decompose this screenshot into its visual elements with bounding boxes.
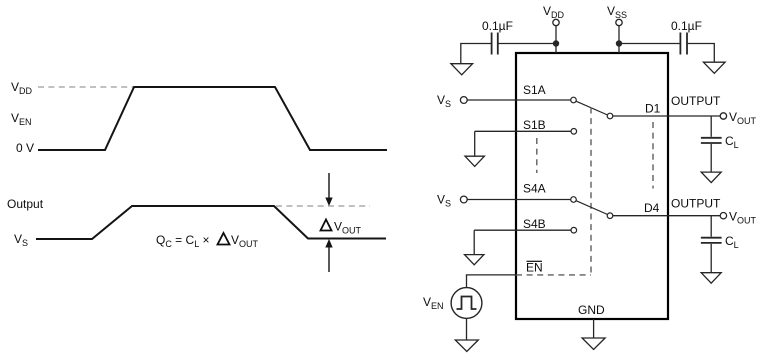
S4B open contact [571,227,577,233]
junction VDD node [553,40,559,46]
svg-text:GND: GND [578,303,605,317]
switch S1 arm [576,101,608,115]
switch S1 pole contact [571,97,577,103]
capacitor 0.1uF right [671,19,702,55]
switch S4 pole contact [571,197,577,203]
down arrow to dashed line [325,173,332,206]
capacitor CL (bottom) [701,234,739,250]
VS source terminal (top) [437,93,467,109]
switch S4 arm [576,201,608,215]
VSS terminal [607,4,627,26]
VDD terminal [543,4,565,26]
ground (S1B) [465,156,484,166]
svg-text:QC = CL ×: QC = CL × [156,233,210,249]
wire S4B to ground [473,230,475,254]
IC body outline [516,53,668,319]
wire VOUT node to CL (top) [710,116,712,137]
ground (right bypass cap) [703,62,725,73]
VOUT terminal (bottom) [720,210,756,226]
equation QC = CL x dVOUT [156,233,259,249]
wire VSS node to right capacitor [619,43,680,45]
wire VDD node to left capacitor [498,43,556,45]
label VS (waveform) [14,232,28,248]
wire VS to S4A pole [467,199,571,201]
label VDD (waveform level) [11,80,33,96]
wire VEN source to ground [466,318,468,340]
ground (left bypass cap) [451,64,473,75]
svg-text:0.1µF: 0.1µF [482,19,513,33]
Output waveform trace [36,206,386,239]
S1B open contact [571,129,577,135]
dashed output top reference line [276,205,370,207]
svg-text:S4A: S4A [523,182,546,196]
capacitor CL (top) [701,134,739,150]
wire left capacitor to ground [461,44,492,64]
ground (S4B) [465,255,484,265]
wire GND to ground [593,319,595,338]
dashed link D1-D4 [652,122,654,189]
wire S1B [475,130,572,132]
svg-text:Output: Output [7,197,44,211]
svg-text:0.1µF: 0.1µF [671,19,702,33]
VEN waveform trace [38,87,387,150]
wire CL to ground (bottom) [710,244,712,273]
up arrow to settled level [325,239,332,272]
svg-text:D4: D4 [644,201,660,215]
ground (CL top) [701,172,721,183]
ground (GND pin) [582,338,605,349]
wire VOUT node to CL (bottom) [710,216,712,237]
wire S1B to ground [474,131,476,156]
junction VSS node [616,40,622,46]
label EN (with overline) [526,261,543,275]
ground (CL bottom) [701,273,721,284]
label VEN [11,111,32,127]
svg-text:D1: D1 [645,102,661,116]
VEN pulse source [423,288,482,319]
dashed VDD reference line [38,86,133,88]
svg-text:OUTPUT: OUTPUT [671,94,721,108]
wire D4 to VOUT (bottom) [613,215,721,217]
wire VDD to IC [555,26,557,53]
svg-text:S1A: S1A [523,83,546,97]
switch S4 throw contact [607,213,613,219]
svg-text:0 V: 0 V [16,141,34,155]
wire CL to ground (top) [710,144,712,172]
capacitor 0.1uF left [482,19,513,55]
dashed gang link S1B-S4A [536,138,538,173]
label delta VOUT (annotation) [321,220,362,236]
VOUT terminal (top) [720,110,756,126]
svg-text:OUTPUT: OUTPUT [671,197,721,211]
svg-text:S1B: S1B [523,118,546,132]
wire D1 to VOUT (top) [613,115,721,117]
wire VSS to IC [618,26,620,53]
dashed control link (arms to EN) [590,108,592,275]
wire VS to S1A pole [467,99,571,101]
switch S1 throw contact [607,113,613,119]
dashed EN control line inside IC [516,274,591,276]
svg-text:EN: EN [526,261,543,275]
VS source terminal (bottom) [437,193,467,209]
svg-text:S4B: S4B [523,217,546,231]
ground (VEN) [455,340,478,351]
wire S4B [474,229,571,231]
wire EN to VEN source [467,275,517,288]
wire right capacitor to ground [687,44,714,63]
